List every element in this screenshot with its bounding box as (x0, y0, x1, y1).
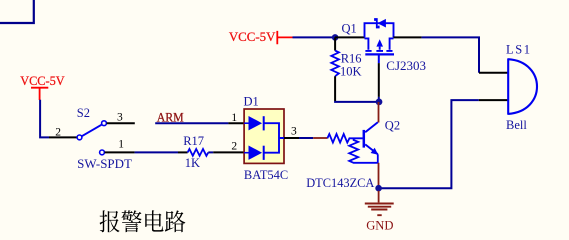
wire R16 bottom to gate node (335, 100, 379, 103)
svg-text:1: 1 (118, 139, 124, 151)
svg-text:LS1: LS1 (506, 42, 530, 56)
wire D1 pin3 to Q2 (navy) (299, 137, 313, 139)
svg-text:1: 1 (231, 112, 237, 124)
wire top-left border stub (0, 0, 34, 23)
switch S2 (49, 121, 135, 155)
wire Q2 emitter to GND node (maroon) (378, 163, 380, 186)
wire node to Q2 collector (maroon) (378, 102, 380, 123)
wire S2 pin1 to R17 (135, 151, 178, 153)
svg-text:VCC-5V: VCC-5V (229, 30, 276, 44)
bell LS1 (508, 58, 537, 114)
svg-text:VCC-5V: VCC-5V (20, 74, 64, 88)
svg-text:Q2: Q2 (385, 118, 400, 132)
svg-text:ARM: ARM (157, 109, 184, 124)
power port VCC-5V (top) (229, 30, 293, 44)
diode D1 BAT54C body (244, 109, 284, 163)
pin 3 stub D1 (284, 137, 299, 139)
svg-text:GND: GND (366, 217, 393, 232)
svg-text:3: 3 (291, 126, 297, 138)
junction node emitter/GND/rail (375, 185, 382, 192)
svg-text:R16: R16 (341, 51, 362, 65)
wire LS1 bottom to emitter rail (379, 100, 479, 188)
wire Q1 gate down to node (378, 55, 380, 63)
transistor Q2 DTC143ZCA (327, 122, 378, 163)
svg-text:CJ2303: CJ2303 (386, 59, 426, 73)
svg-text:2: 2 (231, 140, 237, 152)
ground GND (365, 191, 394, 233)
svg-text:Bell: Bell (506, 118, 527, 132)
svg-text:Q1: Q1 (342, 22, 357, 36)
power port VCC-5V (left) (20, 74, 64, 100)
diode D1 top element (244, 116, 264, 130)
pin 2 stub D1 (213, 151, 244, 153)
junction node at R16 top (332, 34, 339, 41)
svg-text:SW-SPDT: SW-SPDT (77, 157, 132, 171)
pin Q1 source stub (335, 36, 364, 38)
svg-text:3: 3 (117, 111, 123, 123)
wire VCC to switch S2 pin 2 (40, 100, 49, 138)
pin 1 stub D1 (228, 122, 244, 124)
svg-text:DTC143ZCA: DTC143ZCA (306, 176, 374, 190)
pin Q1 drain stub (394, 36, 422, 38)
svg-text:D1: D1 (244, 94, 259, 108)
svg-text:10K: 10K (340, 64, 362, 78)
wire D1 internal cathode join (264, 123, 284, 153)
wire VCC top to node (293, 36, 336, 38)
resistor R17 (178, 149, 213, 156)
wire Q1 drain to LS1 top (422, 37, 479, 72)
diode D1 bottom element (244, 146, 264, 160)
resistor R16 (331, 37, 339, 101)
svg-text:S2: S2 (77, 106, 90, 120)
svg-text:BAT54C: BAT54C (244, 168, 288, 182)
wire D1 pin3 to Q2 (maroon) (313, 137, 327, 139)
pin LS1 top stub (479, 72, 508, 74)
svg-text:R17: R17 (183, 134, 204, 148)
svg-text:1K: 1K (185, 156, 200, 170)
junction node gate/R16/Q2 (376, 99, 383, 106)
mosfet Q1 (365, 19, 395, 55)
pin LS1 bottom stub (479, 99, 509, 101)
title text 报警电路 (100, 210, 186, 232)
wire ARM to D1 pin 1 (155, 122, 228, 124)
svg-text:2: 2 (55, 126, 61, 138)
